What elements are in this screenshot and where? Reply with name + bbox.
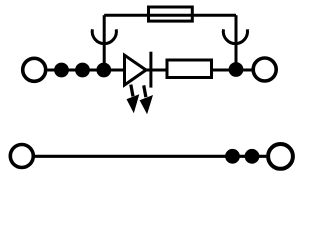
wire: left fuse-branch vertical riser <box>103 15 106 70</box>
node: wire-clamp dot 1, lower circuit <box>225 149 240 164</box>
terminal X2.2: right screw-clamp circle, lower circuit <box>268 144 293 169</box>
wire: lower feed-through conductor <box>35 155 266 158</box>
LED D1: light emission arrow 2 <box>140 85 153 114</box>
wire: diode apex to cathode bar to resistor <box>146 69 167 72</box>
node: wire-clamp dot 2, lower circuit <box>245 149 260 164</box>
node: wire-clamp dot 1, upper circuit <box>54 63 69 78</box>
terminal X1.1: left screw-clamp circle, upper circuit <box>23 58 46 81</box>
node: junction of right riser with main conductor <box>229 62 244 77</box>
wire: main horizontal conductor, upper circuit <box>47 69 124 72</box>
disconnect contact socket: right arc <box>223 29 247 43</box>
fuse F1: rectangle body on top branch <box>149 7 193 21</box>
wire: fuse-branch top horizontal run <box>104 14 236 17</box>
node: junction of left riser with main conductor <box>96 63 111 78</box>
node: wire-clamp dot 2, upper circuit <box>75 63 90 78</box>
wire: resistor to right terminal <box>212 69 252 72</box>
terminal X1.2: right screw-clamp circle, upper circuit <box>253 58 276 81</box>
resistor R1: rectangle body <box>167 60 212 78</box>
LED D1: diode triangle <box>125 55 147 85</box>
wire: right fuse-branch vertical riser <box>235 15 238 70</box>
LED D1: light emission arrow 1 <box>127 84 140 113</box>
disconnect contact socket: left arc <box>92 29 116 43</box>
LED D1: cathode bar <box>149 52 152 88</box>
terminal X2.1: left screw-clamp circle, lower circuit <box>10 145 33 168</box>
